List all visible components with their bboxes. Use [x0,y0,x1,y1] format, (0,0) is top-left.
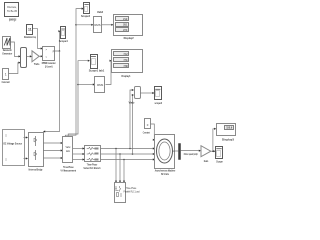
svg-text:DC Voltage Source: DC Voltage Source [3,141,22,145]
svg-text:RMS: RMS [97,83,103,87]
svg-text:P: P [53,49,55,53]
wire measurement to RLC B [73,153,85,155]
svg-text:Display1: Display1 [122,74,131,78]
svg-text:27.3: 27.3 [123,28,127,32]
wire bridge phase B to measurement [43,149,63,151]
mux M1 [21,48,27,68]
three-phase V-I measurement [61,137,77,173]
wire RLC to machine C [101,158,155,160]
scope Scope [216,147,224,164]
svg-text:powergui: powergui [9,18,16,22]
RMS block [94,10,104,33]
powergui U1 [5,3,19,22]
gain Gain [201,146,211,163]
constant C0 (1) [2,69,10,85]
wire branch up to display3 [212,128,216,152]
svg-text:Constant: Constant [2,80,10,84]
svg-text:V-I Measurement: V-I Measurement [61,168,77,172]
three-phase parallel RLC load [115,183,140,203]
svg-text:Display3: Display3 [222,137,234,141]
scope Scope2 [81,3,90,19]
scope Scope1 (Iab) [89,55,105,73]
wire branch to RMS [75,24,93,26]
svg-text:Parallel RLC Load: Parallel RLC Load [124,189,140,193]
universal bridge [28,133,43,172]
scope scope3 [154,87,162,106]
wire RLC to machine B [101,153,155,155]
asynchronous machine [155,135,176,176]
svg-text:scope3: scope3 [154,101,162,105]
svg-text:Scope2: Scope2 [81,14,90,18]
RMS1 block [95,77,105,93]
svg-text:7.51: 7.51 [124,58,128,62]
wire constant1 to machine Tm [151,124,156,141]
svg-text:Ts=5e-05: Ts=5e-05 [7,9,17,13]
wire gain to DPWM [39,55,43,57]
svg-text:RMS: RMS [94,23,100,27]
svg-text:m: m [173,150,175,153]
svg-text:28.1: 28.1 [123,22,127,26]
wire measurement to RLC C [73,158,85,160]
wire tap up phase B to Vab mux [132,94,134,155]
svg-text:11: 11 [28,28,32,32]
svg-text:Display2: Display2 [124,36,134,40]
wire sawtooth to mux [11,42,21,58]
svg-text:155.9: 155.9 [226,126,232,130]
constant Modulation Freq (11) [24,25,36,39]
wire gain to scope [211,150,216,152]
wire Vabc tap up [65,8,84,137]
mux Vab [129,87,141,105]
svg-text:Trafo: Trafo [34,62,40,66]
wire RMS to display2 [102,24,114,26]
wire RLC to machine A [101,147,155,149]
wire mux to scope3 [140,92,155,94]
scope Scope4 [59,27,68,44]
svg-text:1: 1 [5,73,7,77]
svg-text:Vab2: Vab2 [97,10,103,14]
svg-text:Scope: Scope [216,160,223,164]
wire bridge phase A to measurement [43,142,63,144]
svg-text:(2-Level): (2-Level) [45,65,53,69]
wire branch to RMS1 [77,83,95,85]
gain Trafo [32,51,40,66]
wire tap down phase C to load [123,159,125,183]
bus selector [179,144,181,160]
wire dc+ to bridge [24,136,29,138]
wire Iabc tap up [68,60,90,137]
wire measurement to RLC A [73,147,85,149]
wire dc- to bridge [24,157,29,159]
three-phase series RLC branch [84,146,101,170]
svg-text:Scope1 Iab1: Scope1 Iab1 [89,69,105,73]
svg-text:SI Units: SI Units [161,172,169,176]
svg-text:Universal Bridge: Universal Bridge [28,168,42,172]
svg-text:Vab: Vab [129,101,135,105]
wire bus selector to gain, signal label rotor speed [181,150,201,157]
wire modulation freq to DPWM input [33,29,43,50]
display Display2 [114,15,143,41]
svg-text:Constant: Constant [143,130,150,134]
constant Constant1 [143,119,151,135]
wire tap down phase A to load [115,148,117,183]
svg-text:Generator: Generator [2,51,13,55]
svg-text:Gain: Gain [204,159,209,163]
wire RMS1 to display1 [106,60,112,85]
wire tap up phase A to Vab mux [129,89,134,149]
svg-text:7.12: 7.12 [124,52,128,56]
wire machine m to bus selector [175,150,178,152]
wire bridge phase C to measurement [43,157,63,159]
wire constant to mux [9,62,21,74]
wire DPWM output to scope4 and bridge gate [43,30,61,132]
display Display3 [217,124,236,142]
wire mux to gain [27,55,32,57]
dc voltage source V1 [3,130,25,166]
svg-text:7.68: 7.68 [124,64,128,68]
sawtooth generator [2,37,13,56]
svg-text:Scope4: Scope4 [59,39,68,43]
svg-text:Modulation Freq: Modulation Freq [24,36,36,39]
display Display1 [112,50,143,79]
svg-text:21.9: 21.9 [123,17,127,21]
svg-text:Series RLC Branch: Series RLC Branch [84,166,101,170]
wire tap down phase B to load [119,153,121,183]
svg-text:Vabc: Vabc [65,147,71,149]
svg-text:<Rotor speed (wm)>: <Rotor speed (wm)> [184,152,199,156]
DPWM generator [42,47,57,69]
